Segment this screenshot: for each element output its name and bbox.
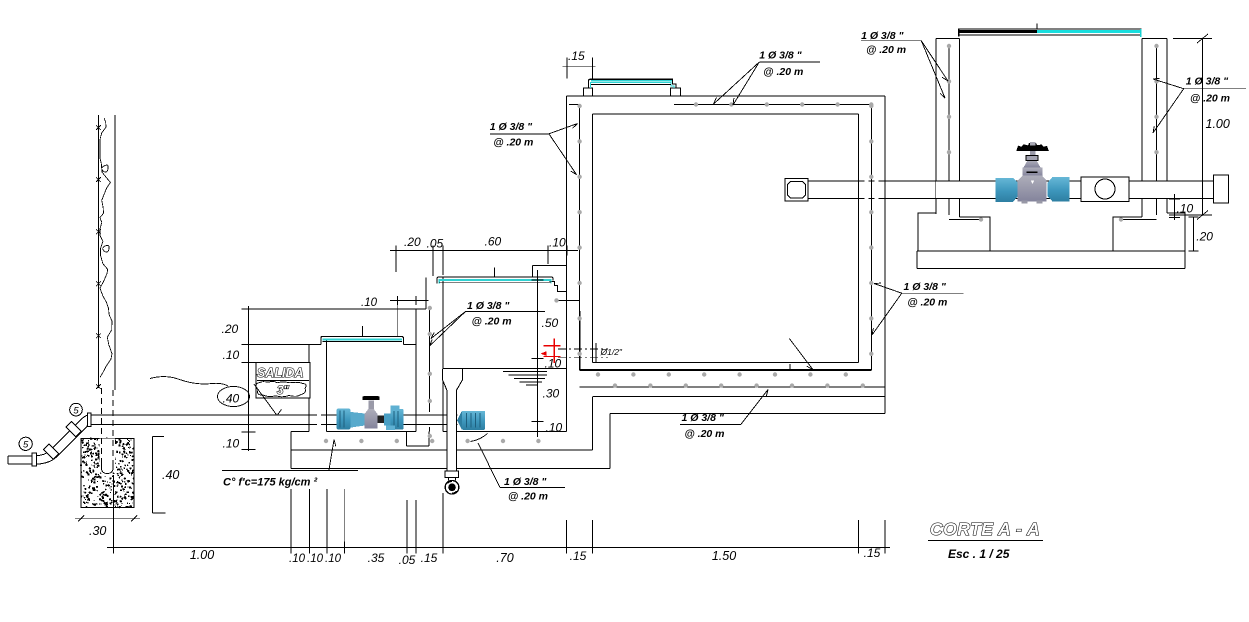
svg-text:1 Ø 3/8 ": 1 Ø 3/8 " <box>1186 76 1229 88</box>
svg-text:.10: .10 <box>549 236 566 250</box>
salida pipe hidden in wall (dashed) <box>310 414 327 416</box>
rebar note divider wall <box>430 300 546 346</box>
svg-text:.20: .20 <box>1196 230 1213 244</box>
pipe flange F1 <box>32 453 36 466</box>
svg-text:.20: .20 <box>222 322 239 336</box>
svg-text:.30: .30 <box>89 524 106 538</box>
svg-text:.35: .35 <box>368 551 385 565</box>
svg-text:1.00: 1.00 <box>1206 117 1230 131</box>
collar light blue <box>351 412 365 428</box>
cloud around .40 <box>218 387 250 407</box>
valve blue coupling left <box>995 178 1017 202</box>
svg-text:1 Ø 3/8 ": 1 Ø 3/8 " <box>682 412 725 424</box>
valve chamber walls (left) <box>309 341 416 432</box>
ground wall (broken-line wall section at left) <box>96 115 115 390</box>
chamber floor rebar dots <box>324 439 541 443</box>
inlet chamber cover (cyan) <box>437 268 553 284</box>
right valve chamber cover (black + cyan) <box>958 24 1142 38</box>
svg-text:@ .20 m: @ .20 m <box>907 297 947 309</box>
pipe from valve chamber to float valve <box>404 413 458 428</box>
svg-text:.10: .10 <box>223 348 240 362</box>
right dimension column (.50/.10/.30/.10) <box>531 270 562 437</box>
svg-text:1 Ø 3/8 ": 1 Ø 3/8 " <box>467 300 510 312</box>
svg-text:.05: .05 <box>427 237 444 251</box>
pipe coupling ring lower <box>43 444 59 460</box>
main tank outer walls <box>566 96 884 432</box>
connector black <box>378 416 385 424</box>
divider wall rebar dots <box>428 306 432 438</box>
right valve chamber rebar dots <box>947 44 1159 222</box>
main tank inner walls <box>592 114 858 362</box>
dimension .10 (divider wall) <box>361 296 429 337</box>
inlet chamber walls <box>443 96 567 432</box>
pipe coupling ring upper <box>66 421 82 437</box>
main tank floor slab <box>580 370 885 397</box>
rebar note right chamber left wall <box>861 30 948 98</box>
svg-text:Ø1/2": Ø1/2" <box>600 347 623 357</box>
svg-text:.15: .15 <box>864 546 881 560</box>
bottom dimension texts <box>190 546 881 567</box>
dimension .30 (block width) <box>75 509 140 538</box>
right valve chamber base slab <box>917 251 1185 269</box>
pipe end cap right <box>1214 175 1229 203</box>
rebar note tank right wall <box>872 281 964 335</box>
salida pipe horizontal run <box>91 415 336 424</box>
collar blue right <box>384 414 391 426</box>
float valve pipe 1/2in (red) <box>541 339 561 364</box>
title CORTE A - A <box>928 519 1043 561</box>
right valve chamber footings <box>918 213 1185 251</box>
svg-text:C° f'c=175 kg/cm ²: C° f'c=175 kg/cm ² <box>223 477 317 489</box>
union box with circle (right chamber) <box>1081 177 1129 202</box>
valve handle <box>363 396 380 400</box>
divider wall between chambers <box>249 277 567 432</box>
drain pipe coupling <box>445 471 459 478</box>
svg-text:.15: .15 <box>568 49 585 63</box>
svg-text:.10: .10 <box>289 553 306 565</box>
tank outlet pipe to right chamber <box>808 181 936 199</box>
concrete anchor block (stippled) <box>80 438 135 509</box>
svg-text:.40: .40 <box>223 392 240 406</box>
svg-text:1 Ø 3/8 ": 1 Ø 3/8 " <box>504 476 547 488</box>
svg-text:.10: .10 <box>361 297 378 309</box>
pipe flange F2 <box>88 413 92 426</box>
svg-text:.15: .15 <box>421 551 438 565</box>
overflow funnel and drain pipe <box>443 369 463 494</box>
bottom dimension extension lines <box>114 475 885 548</box>
buried wall projection (dashed) into block <box>102 388 114 474</box>
valve chamber cover (cyan) <box>321 326 404 344</box>
float valve (blue) in inlet chamber <box>457 411 485 430</box>
elbow curve upper <box>80 415 88 420</box>
svg-text:.05: .05 <box>399 553 416 567</box>
svg-text:SALIDA: SALIDA <box>257 366 304 380</box>
svg-text:@ .20 m: @ .20 m <box>685 428 725 440</box>
main tank hatch cover (cyan) <box>589 79 676 88</box>
foundation slab lines under chambers <box>291 432 610 469</box>
inlet chamber upper-right curb and steps <box>533 266 580 303</box>
main tank roof hatch curbs <box>584 88 681 96</box>
svg-text:.10: .10 <box>1177 202 1194 216</box>
svg-text:.50: .50 <box>542 316 559 330</box>
step between chamber foundation and tank bottom <box>592 397 610 469</box>
svg-text:1 Ø 3/8 ": 1 Ø 3/8 " <box>759 50 802 62</box>
dimension .10 (pipe to footing) <box>1169 194 1194 220</box>
svg-text:@ .20 m: @ .20 m <box>508 491 548 503</box>
top dimension row (.20/.05/.60/.10) <box>390 235 578 277</box>
dimension .40 (block height) <box>153 437 180 514</box>
svg-text:@ .20 m: @ .20 m <box>763 66 803 78</box>
svg-text:.10: .10 <box>307 553 324 565</box>
dimension 1.00 (right chamber) <box>1169 34 1230 220</box>
svg-text:.15: .15 <box>570 549 587 563</box>
svg-text:1 Ø 3/8 ": 1 Ø 3/8 " <box>490 121 533 133</box>
svg-text:.10: .10 <box>546 421 563 435</box>
valve blue coupling right <box>1048 177 1070 201</box>
main tank wall rebar lines <box>569 105 871 371</box>
pipe 1/2in hidden lines and label <box>558 343 623 362</box>
valve handwheel <box>1016 143 1048 151</box>
svg-text:.60: .60 <box>485 235 502 249</box>
rebar note tank floor <box>680 339 813 440</box>
elbow curve lower <box>37 451 50 456</box>
outlet pipe elbow assembly (lower-left) <box>8 413 91 466</box>
svg-text:5: 5 <box>73 405 79 416</box>
svg-text:1 Ø 3/8 ": 1 Ø 3/8 " <box>904 281 947 293</box>
svg-text:.40: .40 <box>162 468 179 482</box>
svg-text:@ .20 m: @ .20 m <box>1190 93 1230 105</box>
right valve chamber right wall <box>1119 39 1167 220</box>
valve body gray <box>365 409 378 429</box>
main tank floor rebar dots <box>596 372 865 388</box>
bottom dimension line <box>107 542 890 554</box>
union coupling right <box>391 409 404 430</box>
svg-text:5: 5 <box>23 440 29 451</box>
svg-text:1.00: 1.00 <box>190 548 214 562</box>
rebar note right chamber right wall <box>1153 76 1246 134</box>
svg-text:.10: .10 <box>223 437 240 451</box>
SALIDA label box <box>150 362 310 415</box>
svg-text:.70: .70 <box>496 551 513 565</box>
svg-text:@ .20 m: @ .20 m <box>866 44 906 56</box>
svg-text:.20: .20 <box>404 235 421 249</box>
concrete spec note <box>222 440 358 489</box>
tank outlet union box with circle <box>785 179 808 201</box>
valve stem and nut <box>1030 146 1036 157</box>
svg-text:CORTE A - A: CORTE A - A <box>930 519 1040 539</box>
svg-text:1 Ø 3/8 ": 1 Ø 3/8 " <box>861 30 904 42</box>
main tank rebar dots <box>577 102 873 356</box>
drain tap (grifo) <box>448 478 450 481</box>
callout bubble 5 (lower) <box>19 437 32 450</box>
rebar note tank left wall <box>490 121 578 175</box>
svg-text:@ .20 m: @ .20 m <box>493 137 533 149</box>
svg-text:.30: .30 <box>543 387 560 401</box>
rebar note tank top slab <box>714 50 821 106</box>
union coupling (dark blue) left <box>337 409 351 430</box>
right valve chamber left wall <box>936 39 983 220</box>
45-degree pipe run <box>50 420 80 450</box>
pipe through right valve chamber <box>936 181 1214 199</box>
svg-text:@ .20 m: @ .20 m <box>472 316 512 328</box>
callout bubble 5 (upper) <box>70 403 83 416</box>
svg-text:.10: .10 <box>545 357 562 371</box>
water level symbol <box>503 372 547 386</box>
svg-text:.10: .10 <box>325 553 342 565</box>
svg-text:3": 3" <box>277 385 289 397</box>
valve body <box>1024 161 1041 168</box>
rebar note chamber foundation <box>471 434 566 503</box>
svg-text:1.50: 1.50 <box>712 549 736 563</box>
dimension .20 (footing) <box>1189 217 1214 251</box>
dimension .15 (hatch offset) <box>563 49 596 78</box>
left dimension column (.20/.10/.40/.10) <box>222 306 309 451</box>
svg-text:Esc . 1 / 25: Esc . 1 / 25 <box>948 547 1010 561</box>
gate valve V2 (valve chamber) <box>337 396 404 430</box>
gate valve V1 (right chamber) <box>995 142 1069 203</box>
